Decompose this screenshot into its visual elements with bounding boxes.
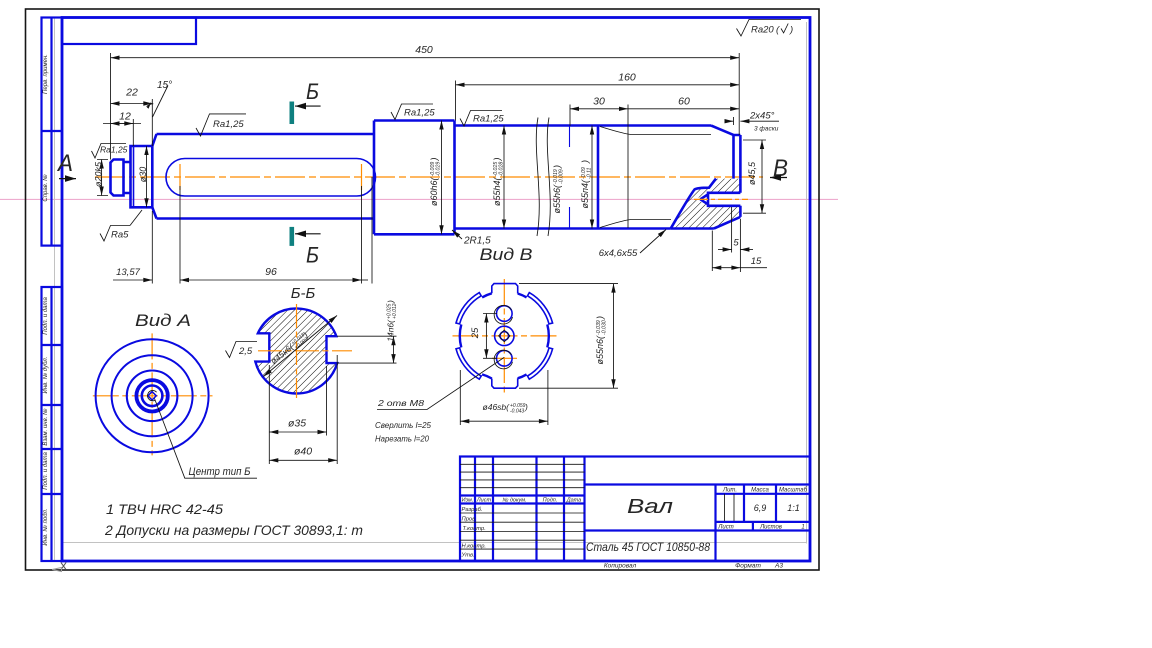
svg-text:№ докум.: № докум. — [502, 498, 526, 504]
svg-text:160: 160 — [618, 72, 636, 84]
svg-text:Копировал: Копировал — [604, 563, 637, 570]
svg-text:Б-Б: Б-Б — [291, 285, 316, 302]
svg-text:Подп.: Подп. — [543, 498, 558, 504]
dim 450 — [111, 57, 740, 59]
sheet outer border — [26, 9, 820, 570]
svg-text:ø46sb(: ø46sb( — [483, 402, 511, 412]
svg-text:Б: Б — [306, 79, 319, 104]
center hole centerline — [694, 198, 748, 200]
svg-text:Подп. и дата: Подп. и дата — [43, 452, 49, 490]
svg-text:1: 1 — [801, 525, 804, 531]
svg-text:Масса: Масса — [751, 488, 769, 494]
svg-text:6х4,6х55: 6х4,6х55 — [599, 248, 638, 259]
hole center middle — [495, 326, 514, 345]
ext lines phi35 phi40 — [269, 355, 337, 464]
dim 96 — [180, 279, 362, 281]
spline root lines — [600, 127, 711, 228]
svg-text:А: А — [56, 150, 73, 177]
keyway shaft section — [157, 134, 375, 219]
title block right part — [585, 483, 811, 485]
svg-text:): ) — [429, 158, 439, 162]
svg-text:Ra5: Ra5 — [111, 230, 129, 241]
corner mark arrow — [52, 568, 61, 572]
svg-text:): ) — [580, 160, 590, 164]
crescent upper-right — [528, 293, 553, 324]
Ra20 general roughness top-right — [737, 20, 802, 37]
spline section outline — [598, 126, 711, 229]
view A circle r56.5 — [96, 339, 209, 452]
dim phi60h6 — [441, 121, 443, 235]
svg-text:Масштаб: Масштаб — [779, 488, 808, 494]
svg-text:12: 12 — [119, 111, 131, 123]
dim 2x45 — [727, 120, 734, 122]
section B-B — [226, 285, 399, 464]
svg-text:Листов: Листов — [759, 525, 782, 531]
svg-text:Формат: Формат — [735, 563, 761, 570]
leader 2 holes M8 — [377, 358, 504, 410]
svg-text:Ra1,25: Ra1,25 — [100, 145, 128, 155]
spline section boundary — [597, 126, 600, 229]
keyway slot center tick right — [361, 164, 363, 190]
ext line 30 left black — [569, 105, 571, 127]
section mark B bottom — [289, 227, 294, 246]
svg-text:-0.11: -0.11 — [587, 167, 593, 179]
svg-text:Нарезать l=20: Нарезать l=20 — [375, 434, 429, 444]
leader Centr tip B — [155, 399, 258, 479]
crescent lower-left — [456, 348, 481, 379]
svg-text:450: 450 — [415, 44, 433, 56]
flange main circle arcs — [460, 293, 549, 378]
svg-text:-0.030: -0.030 — [602, 320, 608, 335]
top designation box — [62, 18, 196, 45]
dim 22 — [111, 103, 153, 105]
shaft section phi30 — [131, 146, 153, 207]
svg-text:1:1: 1:1 — [787, 503, 800, 513]
keyway slot center tick left — [179, 164, 181, 190]
phi55h4 section top and bottom — [455, 126, 599, 229]
dim phi30 — [146, 146, 148, 207]
svg-text:-0.009: -0.009 — [559, 169, 565, 184]
dim phi35 — [269, 431, 326, 433]
right end chamfer — [711, 126, 740, 179]
roughness Ra1.25 over phi55 — [460, 111, 502, 127]
svg-text:ø55h4(: ø55h4( — [492, 177, 502, 207]
hole M8 bottom — [497, 351, 513, 367]
dim 60 — [628, 108, 739, 110]
svg-text:ø55п6(: ø55п6( — [595, 335, 605, 364]
svg-text:Ra1,25: Ra1,25 — [473, 114, 504, 125]
svg-text:Разраб.: Разраб. — [462, 507, 483, 513]
view A center diamond — [148, 392, 156, 400]
svg-text:2x45°: 2x45° — [749, 111, 775, 122]
pink guide line — [0, 198, 838, 200]
svg-text:Б: Б — [306, 243, 319, 268]
svg-text:Инв. № дубл.: Инв. № дубл. — [42, 357, 49, 394]
svg-text:Ra1,25: Ra1,25 — [213, 119, 244, 130]
svg-text:15°: 15° — [157, 80, 172, 91]
left column upper boxes — [42, 18, 63, 246]
svg-text:Справ. №: Справ. № — [42, 174, 49, 202]
title block — [460, 457, 810, 570]
keyway slot — [166, 159, 376, 197]
svg-text:ø55h6(: ø55h6( — [552, 184, 562, 214]
dim phi55h4 — [503, 126, 505, 229]
dim 15 — [712, 267, 740, 269]
svg-text:Инв. № подл.: Инв. № подл. — [42, 508, 49, 545]
roughness Ra1.25 over keyway section — [196, 114, 246, 136]
svg-text:Изм.: Изм. — [462, 498, 474, 504]
svg-text:Утв.: Утв. — [461, 553, 475, 559]
svg-text:): ) — [789, 25, 793, 36]
svg-text:2,5: 2,5 — [238, 346, 253, 357]
ext line 22 right — [151, 99, 153, 146]
center hole outline — [700, 179, 740, 217]
svg-text:2 Допуски на размеры ГОСТ 308: 2 Допуски на размеры ГОСТ 30893,1: m — [104, 522, 363, 538]
B-B crosshair — [296, 304, 298, 398]
svg-text:Ra20: Ra20 — [751, 25, 774, 36]
ext line left phi20 — [110, 53, 112, 160]
ext line 12 right — [132, 119, 134, 146]
dim phi40 — [269, 459, 337, 461]
roughness 2.5 at B-B — [226, 342, 258, 358]
dim phi20k5 — [97, 160, 108, 196]
dim phi55p4 — [591, 126, 593, 229]
roughness Ra1.25 over phi20 — [92, 144, 127, 159]
svg-text:Вид А: Вид А — [135, 311, 191, 330]
svg-text:30: 30 — [593, 96, 605, 108]
svg-text:Лист: Лист — [476, 498, 492, 504]
svg-text:Перв. примен.: Перв. примен. — [43, 54, 49, 94]
view A circle r10.3 thick — [142, 386, 163, 407]
dim 12 — [103, 123, 141, 125]
ext line 160 left — [455, 81, 457, 121]
svg-text:60: 60 — [678, 96, 690, 108]
svg-text:): ) — [524, 402, 528, 412]
svg-text:ø40: ø40 — [294, 446, 312, 458]
dim phi45.5 — [743, 140, 766, 213]
gray guide vertical right — [806, 22, 808, 544]
svg-text:Вид В: Вид В — [480, 245, 533, 264]
svg-text:ø60h6(: ø60h6( — [429, 177, 439, 207]
svg-text:Взам. инв. №: Взам. инв. № — [42, 408, 49, 446]
view A circle r15.7 thick — [136, 380, 167, 411]
svg-text:6,9: 6,9 — [754, 503, 767, 513]
label 6x4.6x55 — [640, 230, 666, 254]
view A thread arc — [147, 390, 156, 400]
dim phi46sb — [460, 370, 548, 425]
title block left table verticals — [474, 457, 476, 562]
B-B hatched circle — [255, 308, 337, 393]
dim 25 — [483, 314, 497, 359]
extension blue segments — [569, 127, 571, 229]
svg-text:Т.контр.: Т.контр. — [463, 526, 486, 532]
hole M8 top — [497, 306, 513, 322]
svg-text:Сверлить l=25: Сверлить l=25 — [375, 420, 431, 430]
drawing frame — [62, 18, 810, 562]
svg-text:Центр тип Б: Центр тип Б — [189, 466, 251, 478]
crescent upper-left — [456, 293, 481, 324]
svg-text:Подп. и дата: Подп. и дата — [43, 297, 49, 335]
shaft section phi20k5 — [111, 160, 131, 196]
section mark B top — [289, 102, 294, 125]
svg-text:Ra1,25: Ra1,25 — [404, 108, 435, 119]
dim 13.57 — [113, 279, 152, 281]
15 deg cone transition — [152, 134, 156, 219]
B-B keyway width dim — [393, 336, 395, 363]
dim 5 — [712, 207, 740, 272]
svg-text:ø55п4(: ø55п4( — [580, 179, 590, 208]
svg-text:13,57: 13,57 — [116, 267, 140, 278]
svg-text:25: 25 — [470, 327, 481, 339]
svg-text:): ) — [492, 158, 502, 162]
view A crosshair — [93, 395, 213, 397]
svg-text:ø20k5: ø20k5 — [94, 161, 104, 187]
centerline — [95, 176, 763, 178]
cutaway hatch fill — [671, 179, 741, 229]
crescent lower-right — [528, 348, 553, 379]
title block left table thin rows — [460, 463, 585, 465]
svg-text:22: 22 — [125, 87, 138, 99]
svg-text:Вал: Вал — [627, 496, 673, 518]
dim 160 — [456, 84, 740, 86]
B-B keyway ext lines — [337, 336, 397, 363]
svg-text:Лист: Лист — [717, 525, 733, 531]
gray guide horizontal — [63, 542, 807, 544]
svg-text:Лит.: Лит. — [722, 488, 737, 494]
B-B diagonal dimension — [264, 316, 338, 377]
left column lower boxes — [42, 287, 63, 561]
label phi55h6 — [552, 165, 564, 214]
svg-text:Дата: Дата — [566, 498, 582, 504]
break wavy lines — [536, 118, 550, 237]
label 2R15 — [452, 230, 462, 239]
roughness Ra5 — [100, 226, 130, 242]
svg-text:): ) — [386, 300, 396, 304]
flange outline with tabs — [492, 284, 518, 389]
svg-text:96: 96 — [265, 266, 277, 278]
svg-text:-0.043: -0.043 — [510, 408, 524, 414]
svg-text:-0.028: -0.028 — [499, 162, 505, 177]
corner mark x — [61, 562, 66, 569]
ext lines keyway 96 — [179, 186, 181, 284]
dim phi55p6 — [519, 284, 618, 389]
ext line right end — [738, 53, 740, 135]
svg-text:): ) — [595, 316, 605, 320]
cutaway bottom edge — [671, 227, 714, 230]
phi60 section — [374, 121, 455, 235]
view A circle r25.3 — [127, 371, 178, 422]
svg-text:Пров.: Пров. — [462, 517, 477, 523]
main view dimensions — [56, 44, 788, 284]
svg-text:ø30: ø30 — [138, 167, 148, 183]
svg-text:ø45,5: ø45,5 — [747, 161, 757, 185]
svg-text:+0.012: +0.012 — [392, 303, 398, 319]
svg-text:А3: А3 — [774, 563, 783, 570]
svg-text:15: 15 — [751, 256, 762, 267]
flange crosshair — [503, 279, 505, 395]
15 deg angle line — [153, 86, 169, 118]
svg-text:1 ТВЧ HRC 42-45: 1 ТВЧ HRC 42-45 — [106, 501, 223, 517]
chamfer line phi30 — [133, 146, 135, 207]
svg-text:-0.029: -0.029 — [436, 162, 442, 177]
view A — [93, 311, 257, 478]
svg-text:Н.контр.: Н.контр. — [462, 544, 487, 550]
dim 30 — [570, 108, 628, 110]
cutaway outline — [671, 179, 741, 229]
svg-text:2 отв М8: 2 отв М8 — [377, 398, 425, 408]
view A circle r40.5 — [112, 355, 193, 436]
svg-text:ø35: ø35 — [288, 418, 306, 430]
svg-text:14п6(: 14п6( — [386, 319, 396, 342]
svg-text:5: 5 — [733, 238, 739, 249]
view V flange — [375, 279, 618, 444]
svg-text:Сталь 45 ГОСТ 10850-88: Сталь 45 ГОСТ 10850-88 — [586, 540, 710, 554]
svg-text:): ) — [552, 165, 562, 169]
main shaft view — [95, 118, 763, 237]
gray guide vertical left — [54, 18, 56, 561]
roughness Ra1.25 over phi60 — [391, 104, 433, 120]
ext line 30-60 middle — [627, 105, 629, 229]
svg-text:3 фаски: 3 фаски — [754, 126, 779, 133]
